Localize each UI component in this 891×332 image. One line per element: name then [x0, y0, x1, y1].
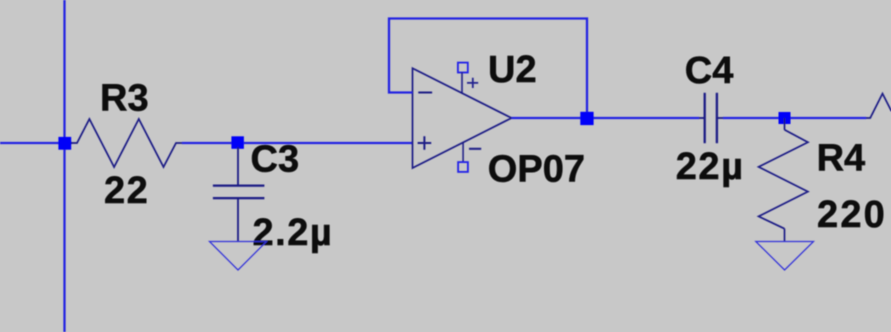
svg-text:22: 22: [104, 170, 149, 212]
svg-text:C4: C4: [685, 50, 734, 92]
wire C4 to R4 node: [723, 117, 866, 119]
wire input segment: [0, 142, 72, 144]
node output: [580, 112, 593, 125]
svg-text:22µ: 22µ: [676, 146, 745, 188]
svg-text:220: 220: [817, 194, 887, 236]
wire vertical left rail: [63, 0, 65, 332]
node R4 top: [779, 112, 791, 124]
capacitor C4: [699, 93, 723, 143]
op-amp bottom power pin square: [458, 162, 468, 172]
op-amp U2: [413, 68, 512, 168]
wire R4 to ground: [784, 229, 786, 242]
wire R3 to opamp: [182, 142, 413, 144]
op-amp bottom power pin lead: [462, 142, 464, 162]
wire feedback loop: [389, 19, 587, 119]
node C3: [231, 136, 244, 149]
op-amp top power pin square: [458, 63, 468, 73]
op-amp top power pin lead: [461, 72, 463, 93]
ground under C3: [210, 242, 267, 271]
capacitor C3: [213, 147, 265, 242]
op-amp inverting input minus: [418, 92, 432, 94]
resistor R4: [759, 130, 808, 229]
svg-text:OP07: OP07: [488, 149, 585, 191]
wire node to R4: [784, 118, 786, 130]
svg-text:R3: R3: [100, 78, 149, 120]
op-amp top power plus sign: [467, 78, 478, 88]
node junction left: [58, 137, 71, 150]
svg-text:C3: C3: [251, 139, 300, 181]
svg-text:2.2µ: 2.2µ: [253, 212, 334, 254]
resistor R5 partial at right edge: [866, 94, 891, 118]
op-amp bottom power minus sign: [469, 148, 481, 150]
resistor R3: [71, 119, 182, 167]
wire output segment: [512, 117, 700, 119]
op-amp non-inverting input plus: [418, 136, 432, 150]
svg-text:U2: U2: [488, 49, 537, 91]
svg-text:R4: R4: [817, 138, 866, 180]
ground under R4: [756, 242, 814, 271]
